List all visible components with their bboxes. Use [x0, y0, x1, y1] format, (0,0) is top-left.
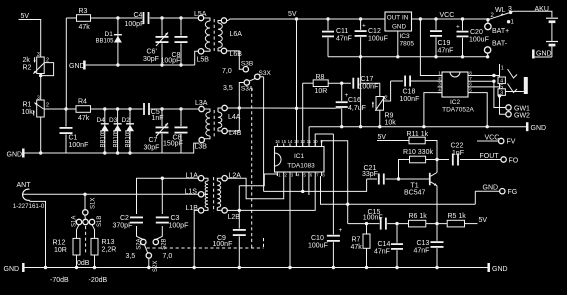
svg-text:R12: R12: [53, 240, 66, 247]
wire IC2 pin5 down: [473, 93, 488, 127]
switch S3X terminal and arm: [255, 74, 260, 79]
svg-text:C17: C17: [361, 76, 374, 83]
svg-text:D4: D4: [97, 117, 106, 124]
svg-text:10k: 10k: [385, 120, 397, 127]
svg-text:C22: C22: [451, 143, 464, 150]
resistor R10 330k: [410, 156, 426, 163]
wire FG line junction: [346, 203, 349, 206]
svg-text:GND: GND: [69, 63, 85, 70]
svg-text:100pF: 100pF: [125, 21, 145, 28]
inductor L2 winding: [217, 178, 222, 181]
svg-text:47k: 47k: [78, 115, 90, 122]
switch S2X terminal and arm: [144, 244, 147, 253]
svg-text:C3: C3: [171, 215, 180, 222]
svg-text:GW1: GW1: [514, 106, 530, 113]
wire R1 bottom to ground rail: [40, 117, 42, 153]
capacitor C11 47nF: [327, 19, 329, 57]
wire IC1 pin12 column to R8 row: [302, 83, 304, 146]
switch S1A terminal: [76, 219, 81, 224]
wire switch to battery: [511, 11, 552, 17]
wire L2B row to IC1 pin7: [239, 176, 315, 210]
wire IC2 pin8 to jack tip: [473, 75, 500, 77]
svg-text:7: 7: [469, 76, 472, 81]
svg-text:L5B: L5B: [197, 57, 210, 64]
terminal GW1: [506, 105, 511, 110]
svg-text:C16: C16: [348, 97, 361, 104]
capacitor C21 33pF: [378, 174, 386, 185]
capacitor C14 47nF: [396, 224, 398, 268]
wire IC1 pin10 to C10 column: [315, 134, 333, 147]
svg-text:D3: D3: [109, 117, 118, 124]
wire R2 wiper loop: [41, 63, 54, 76]
wire top rail R3 to L5A: [91, 17, 199, 19]
svg-text:0dB: 0dB: [77, 260, 90, 267]
svg-text:100nF: 100nF: [213, 241, 233, 248]
svg-text:R13: R13: [102, 239, 115, 246]
transformer L6A terminal: [221, 18, 226, 23]
wire R1 wiper row to R4 and diodes: [44, 108, 76, 110]
resistor R3 47k: [66, 17, 90, 19]
capacitor C16 4,7uF: [341, 83, 343, 127]
svg-text:R2: R2: [23, 65, 32, 72]
resistor R5 1k: [447, 220, 464, 227]
resistor R11 1k: [409, 137, 425, 144]
svg-text:3: 3: [37, 96, 40, 102]
svg-text:L4A: L4A: [228, 114, 241, 121]
wire L1B to bottom rail: [194, 210, 198, 267]
transformer L5A terminal: [198, 15, 203, 20]
svg-text:S1A: S1A: [72, 216, 78, 227]
svg-text:AKU: AKU: [535, 6, 549, 13]
wire L2A to IC1 pin2 mesh: [227, 176, 283, 199]
transformer L2A terminal: [222, 176, 227, 181]
potentiometer R1: [37, 100, 45, 117]
svg-text:L2B: L2B: [228, 214, 241, 221]
switch S1B terminal: [89, 219, 94, 224]
svg-text:3,5: 3,5: [223, 85, 233, 92]
wire L6A to 5V rail: [227, 20, 228, 22]
svg-text:3: 3: [37, 52, 40, 58]
svg-text:S3B: S3B: [241, 60, 253, 67]
svg-text:30pF: 30pF: [143, 56, 159, 63]
capacitor C8 150pF: [180, 109, 182, 153]
svg-text:100nF: 100nF: [400, 96, 420, 103]
wire IC2 pin6 to jack sleeve: [473, 86, 500, 88]
capacitor C19 47nF: [435, 19, 437, 57]
wire 7805 ground bus drop: [360, 57, 362, 127]
svg-text:R7: R7: [352, 237, 361, 244]
svg-text:L3A: L3A: [195, 100, 208, 107]
wire IC1 pin8 to FG ground line: [321, 176, 476, 204]
svg-text:GND: GND: [7, 152, 23, 159]
wire L4A bracket: [227, 107, 239, 109]
svg-text:C14: C14: [378, 241, 391, 248]
svg-text:10R: 10R: [54, 247, 67, 254]
svg-text:3: 3: [438, 82, 441, 87]
svg-text:+: +: [339, 227, 343, 234]
IC1 pin numbers top: [276, 144, 278, 147]
svg-text:S2A: S2A: [137, 238, 143, 249]
svg-text:C10: C10: [311, 235, 324, 242]
svg-text:L6B: L6B: [230, 51, 243, 58]
svg-text:WL: WL: [495, 7, 506, 14]
switch S2B terminal: [153, 239, 158, 244]
svg-text:GND: GND: [392, 24, 406, 31]
svg-text:C18: C18: [403, 89, 416, 96]
svg-text:L1A: L1A: [186, 173, 199, 180]
potentiometer R2: [37, 57, 45, 74]
transistor T1 BC547: [399, 178, 429, 180]
capacitor C12 100uF: [360, 19, 362, 57]
wire R11 to collector node: [425, 141, 437, 173]
capacitor C7 30pF variable: [161, 109, 163, 153]
terminal GW2: [506, 112, 511, 117]
wire L4B bracket: [227, 108, 239, 131]
svg-text:R5 1k: R5 1k: [448, 213, 467, 220]
svg-text:33pF: 33pF: [362, 171, 378, 178]
diode D2 BB105: [129, 109, 131, 153]
capacitor C5 1nF: [141, 108, 162, 110]
wire jack to GW1: [494, 81, 506, 107]
wire R9 bottom to GND rail: [379, 110, 381, 127]
svg-text:ANT: ANT: [17, 182, 32, 189]
capacitor C18 100nF: [391, 80, 403, 82]
inductor L1 winding: [204, 178, 208, 181]
wire 5V to IC1 pin13 and C16 row: [296, 19, 298, 147]
terminal BAT-: [484, 47, 490, 53]
svg-text:+: +: [362, 23, 366, 30]
svg-text:L1S: L1S: [185, 189, 198, 196]
wire ground rail y153: [25, 152, 163, 154]
svg-text:C19: C19: [438, 40, 451, 47]
wire R5 to 5V flag: [465, 223, 478, 225]
svg-text:100nF: 100nF: [69, 142, 89, 149]
svg-text:1: 1: [438, 70, 441, 75]
potentiometer R9 10k: [376, 97, 384, 111]
mechanical link S3 dashed: [251, 88, 253, 248]
svg-text:100uF: 100uF: [368, 36, 388, 43]
svg-text:2,2R: 2,2R: [102, 247, 117, 254]
wire C18 to IC2 pin2: [410, 80, 442, 82]
wire VCC rail: [412, 18, 488, 20]
svg-text:C7: C7: [149, 137, 158, 144]
capacitor C3 100pF: [156, 216, 169, 224]
wire 5V flag to R2 column: [19, 20, 41, 58]
transformer L1S center tap terminal: [198, 192, 203, 197]
svg-text:10R: 10R: [315, 88, 328, 95]
capacitor C10 100uF: [332, 134, 334, 268]
ground flag right GND: [526, 122, 529, 131]
capacitor C6' 30pF variable: [161, 18, 163, 65]
svg-text:IC3: IC3: [400, 33, 411, 40]
svg-text:R9: R9: [385, 113, 394, 120]
svg-text:C20: C20: [470, 29, 483, 36]
wire IC1 pin3 to bottom rail: [289, 176, 291, 268]
wire C15 row: [348, 223, 448, 225]
svg-text:5V: 5V: [479, 217, 488, 224]
svg-text:R3: R3: [79, 8, 88, 15]
transformer core: [213, 177, 215, 212]
wire S3X to column: [260, 76, 264, 78]
svg-text:R11 1k: R11 1k: [407, 131, 429, 138]
wire C5 to L3A: [162, 108, 198, 110]
svg-text:10: 10: [313, 139, 318, 144]
svg-text:BB105: BB105: [113, 129, 119, 148]
svg-text:IC2: IC2: [450, 99, 461, 106]
resistor R4 47k: [76, 106, 91, 113]
wire VCC to IC2 pin1: [420, 19, 442, 76]
svg-text:S2X: S2X: [153, 261, 159, 272]
wire antenna row to L1S: [22, 193, 198, 195]
svg-text:+: +: [456, 24, 460, 31]
switch S3B terminal: [243, 67, 248, 72]
wire antenna down to bottom ground rail: [30, 200, 46, 267]
svg-text:370pF: 370pF: [113, 223, 133, 230]
headphone jack GW: [499, 64, 501, 96]
svg-text:5V: 5V: [378, 134, 387, 141]
svg-text:FOUT: FOUT: [480, 153, 500, 160]
IC2 pin stubs left: [438, 75, 443, 77]
svg-text:L1B: L1B: [186, 205, 199, 212]
wire S3X column to IC1 mesh: [263, 77, 265, 192]
svg-text:R8: R8: [316, 74, 325, 81]
svg-text:1nF: 1nF: [452, 150, 464, 157]
switch S2A terminal: [141, 239, 146, 244]
wire R8 to C17: [328, 82, 351, 84]
wire IC1 pin5 to C21 row: [302, 176, 304, 191]
svg-text:100pF: 100pF: [161, 58, 181, 65]
resistor R7 47k: [366, 224, 368, 268]
wire L5B to ground rail: [195, 51, 199, 65]
svg-text:16: 16: [275, 139, 280, 144]
svg-text:4,7uF: 4,7uF: [348, 105, 366, 112]
svg-text:TDA1083: TDA1083: [287, 163, 315, 170]
svg-text:GND: GND: [4, 266, 20, 273]
transformer L3A terminal: [199, 106, 204, 111]
svg-text:GND: GND: [536, 51, 552, 58]
svg-text:1: 1: [501, 65, 504, 71]
svg-text:5: 5: [469, 87, 472, 92]
svg-text:C4: C4: [134, 12, 143, 19]
svg-text:R4: R4: [78, 99, 87, 106]
capacitor C9 100nF: [238, 210, 240, 267]
mechanical link S1 dashed: [85, 226, 87, 253]
wire L2B to C9 junction: [227, 209, 239, 211]
svg-text:47nF: 47nF: [438, 48, 454, 55]
voltage regulator IC3 7805: [385, 12, 412, 31]
svg-text:14: 14: [288, 139, 293, 144]
svg-text:100pF: 100pF: [169, 223, 189, 230]
transformer L1A terminal: [198, 176, 203, 181]
wire S3A to L4A: [239, 83, 244, 109]
transformer L4B terminal: [222, 128, 227, 133]
terminal FO: [501, 157, 506, 162]
svg-text:150pF: 150pF: [163, 141, 183, 148]
headphone plug bar: [524, 77, 528, 94]
svg-text:C12: C12: [368, 28, 381, 35]
svg-text:6: 6: [469, 82, 472, 87]
svg-text:BB105: BB105: [96, 39, 115, 45]
transformer core: [213, 19, 215, 51]
wire IC2 pin7 to jack: [473, 80, 494, 82]
svg-text:S3X: S3X: [259, 70, 272, 77]
inductor L5 winding: [204, 18, 210, 21]
wire L2B branch to IC1 pin1: [239, 174, 277, 186]
wire R10 left to base: [399, 160, 410, 180]
wire GND rail y127 to flag: [309, 126, 526, 128]
svg-text:FG: FG: [508, 189, 518, 196]
wire C21 right to base node: [386, 178, 399, 180]
svg-text:8: 8: [469, 70, 472, 75]
svg-text:VCC: VCC: [485, 135, 500, 142]
wire R9 wiper to C18: [384, 81, 391, 101]
svg-text:R1: R1: [23, 102, 32, 109]
wire L1A row to C3: [161, 178, 163, 214]
switch WL: [486, 18, 489, 21]
wire R10 right to collector node: [426, 159, 437, 161]
transformer core: [213, 110, 215, 139]
wire R3 left column: [65, 18, 67, 109]
svg-text:GND: GND: [483, 185, 499, 192]
inductor L6 winding: [218, 21, 221, 24]
svg-text:100uF: 100uF: [469, 37, 489, 44]
wire 7805 GND pin: [397, 31, 399, 57]
svg-text:IC1: IC1: [294, 153, 305, 160]
IC1 pin numbers bottom: [276, 172, 278, 176]
diode D4 BB105: [104, 109, 106, 153]
svg-text:C2: C2: [120, 215, 129, 222]
capacitor C15 100nF: [379, 218, 387, 230]
terminal FV with VCC flag: [477, 140, 498, 142]
capacitor C17 100nF: [352, 78, 360, 89]
svg-text:47k: 47k: [351, 244, 363, 251]
capacitor C22 1nF: [452, 154, 460, 166]
inductor L3 winding: [204, 109, 210, 112]
svg-text:15: 15: [281, 139, 286, 144]
svg-text:47nF: 47nF: [374, 249, 390, 256]
svg-text:L6A: L6A: [230, 31, 243, 38]
svg-text:VCC: VCC: [440, 12, 455, 19]
switch S3A terminal: [244, 80, 249, 85]
svg-text:30pF: 30pF: [144, 145, 160, 152]
transformer L5B terminal: [198, 49, 203, 54]
transformer L3B terminal: [199, 137, 204, 142]
wire IC1 pin11 to GND rail left end: [308, 127, 310, 147]
terminal FG with GND flag: [475, 190, 499, 192]
svg-text:BB105: BB105: [101, 129, 107, 148]
wire S2X to bottom rail: [148, 258, 150, 267]
wire C17 to R9 top: [361, 83, 380, 96]
wire C22 row FOUT: [437, 159, 449, 161]
svg-text:TDA7052A: TDA7052A: [442, 107, 474, 114]
terminal BAT+: [485, 23, 491, 29]
wire R2 to R1: [40, 74, 42, 101]
resistor R6 1k: [409, 220, 426, 227]
svg-text:C1: C1: [69, 135, 78, 142]
svg-text:FO: FO: [509, 158, 519, 165]
svg-text:-20dB: -20dB: [89, 277, 108, 284]
capacitor C2 370pF: [130, 216, 143, 224]
svg-text:47nF: 47nF: [414, 248, 430, 255]
wire ground rail y65: [86, 64, 195, 66]
wire C7 C8 bottom to L3B: [162, 143, 199, 153]
svg-text:100uF: 100uF: [308, 243, 328, 250]
svg-text:FV: FV: [507, 139, 516, 146]
resistor R8 10R: [303, 82, 314, 84]
capacitor C4 100pF: [142, 12, 150, 24]
capacitor C13 47nF: [436, 224, 438, 268]
svg-text:BAT-: BAT-: [492, 41, 508, 48]
svg-text:C13: C13: [417, 240, 430, 247]
wire bottom ground rail: [25, 267, 489, 269]
svg-text:GW2: GW2: [514, 113, 530, 120]
transformer L1B terminal: [198, 208, 203, 213]
svg-text:5V: 5V: [288, 11, 297, 18]
svg-text:13: 13: [294, 139, 299, 144]
svg-text:S1B: S1B: [97, 216, 103, 227]
wire emitter down to R6 node: [436, 186, 438, 224]
wire L1A row to C2: [137, 178, 199, 214]
resistor R13 2,2R: [92, 225, 95, 239]
IC2 pin stubs right: [468, 75, 473, 77]
transformer L2B terminal: [222, 208, 227, 213]
switch S1X terminal: [84, 194, 86, 210]
svg-text:S1X: S1X: [91, 198, 97, 209]
wire jack to GW2: [498, 94, 501, 97]
wire FG to ground line: [474, 191, 476, 204]
transformer L6B terminal: [221, 48, 226, 53]
transformer L4A terminal: [222, 105, 227, 110]
svg-text:R10 330k: R10 330k: [403, 149, 433, 156]
wire 7805 ground bus: [328, 56, 488, 58]
switch S1 arm: [84, 215, 87, 219]
diode D3 BB105: [117, 109, 119, 153]
inductor L4 winding: [218, 108, 222, 112]
resistor R12 10R: [77, 225, 80, 239]
wire IC1 pin9 to audio column: [322, 141, 348, 224]
svg-text:D2: D2: [122, 117, 131, 124]
wire battery minus to GND flag: [535, 56, 552, 58]
integrated circuit IC2 TDA7052A: [442, 72, 468, 97]
svg-text:-70dB: -70dB: [50, 277, 69, 284]
mechanical link S2 dashed horizontal: [147, 247, 264, 249]
svg-text:4: 4: [438, 87, 441, 92]
svg-text:10k: 10k: [22, 109, 34, 116]
svg-text:100nF: 100nF: [359, 84, 379, 91]
svg-text:2: 2: [46, 103, 49, 109]
wire C16 bottom row: [239, 107, 341, 109]
svg-text:L5A: L5A: [194, 11, 207, 18]
svg-text:R6 1k: R6 1k: [409, 213, 428, 220]
svg-text:12: 12: [300, 139, 305, 144]
capacitor C1 100nF: [65, 109, 67, 153]
svg-text:2k: 2k: [23, 57, 31, 64]
svg-text:D1: D1: [105, 31, 114, 38]
svg-text:1-227161-0: 1-227161-0: [13, 203, 45, 210]
wire IC2 pin4 to GND rail: [424, 93, 442, 127]
svg-text:C11: C11: [336, 28, 348, 35]
wire C21 row: [264, 179, 367, 191]
wire IC1 pin6 stub: [308, 176, 310, 195]
svg-text:7,0: 7,0: [163, 253, 173, 260]
svg-text:BC547: BC547: [404, 189, 426, 196]
svg-text:47nF: 47nF: [336, 36, 352, 43]
capacitor C8 100pF: [180, 18, 182, 65]
svg-text:7,0: 7,0: [222, 68, 232, 75]
svg-text:GND: GND: [531, 125, 547, 132]
diode D1 BB105: [117, 18, 119, 65]
svg-text:L3B: L3B: [195, 144, 208, 151]
